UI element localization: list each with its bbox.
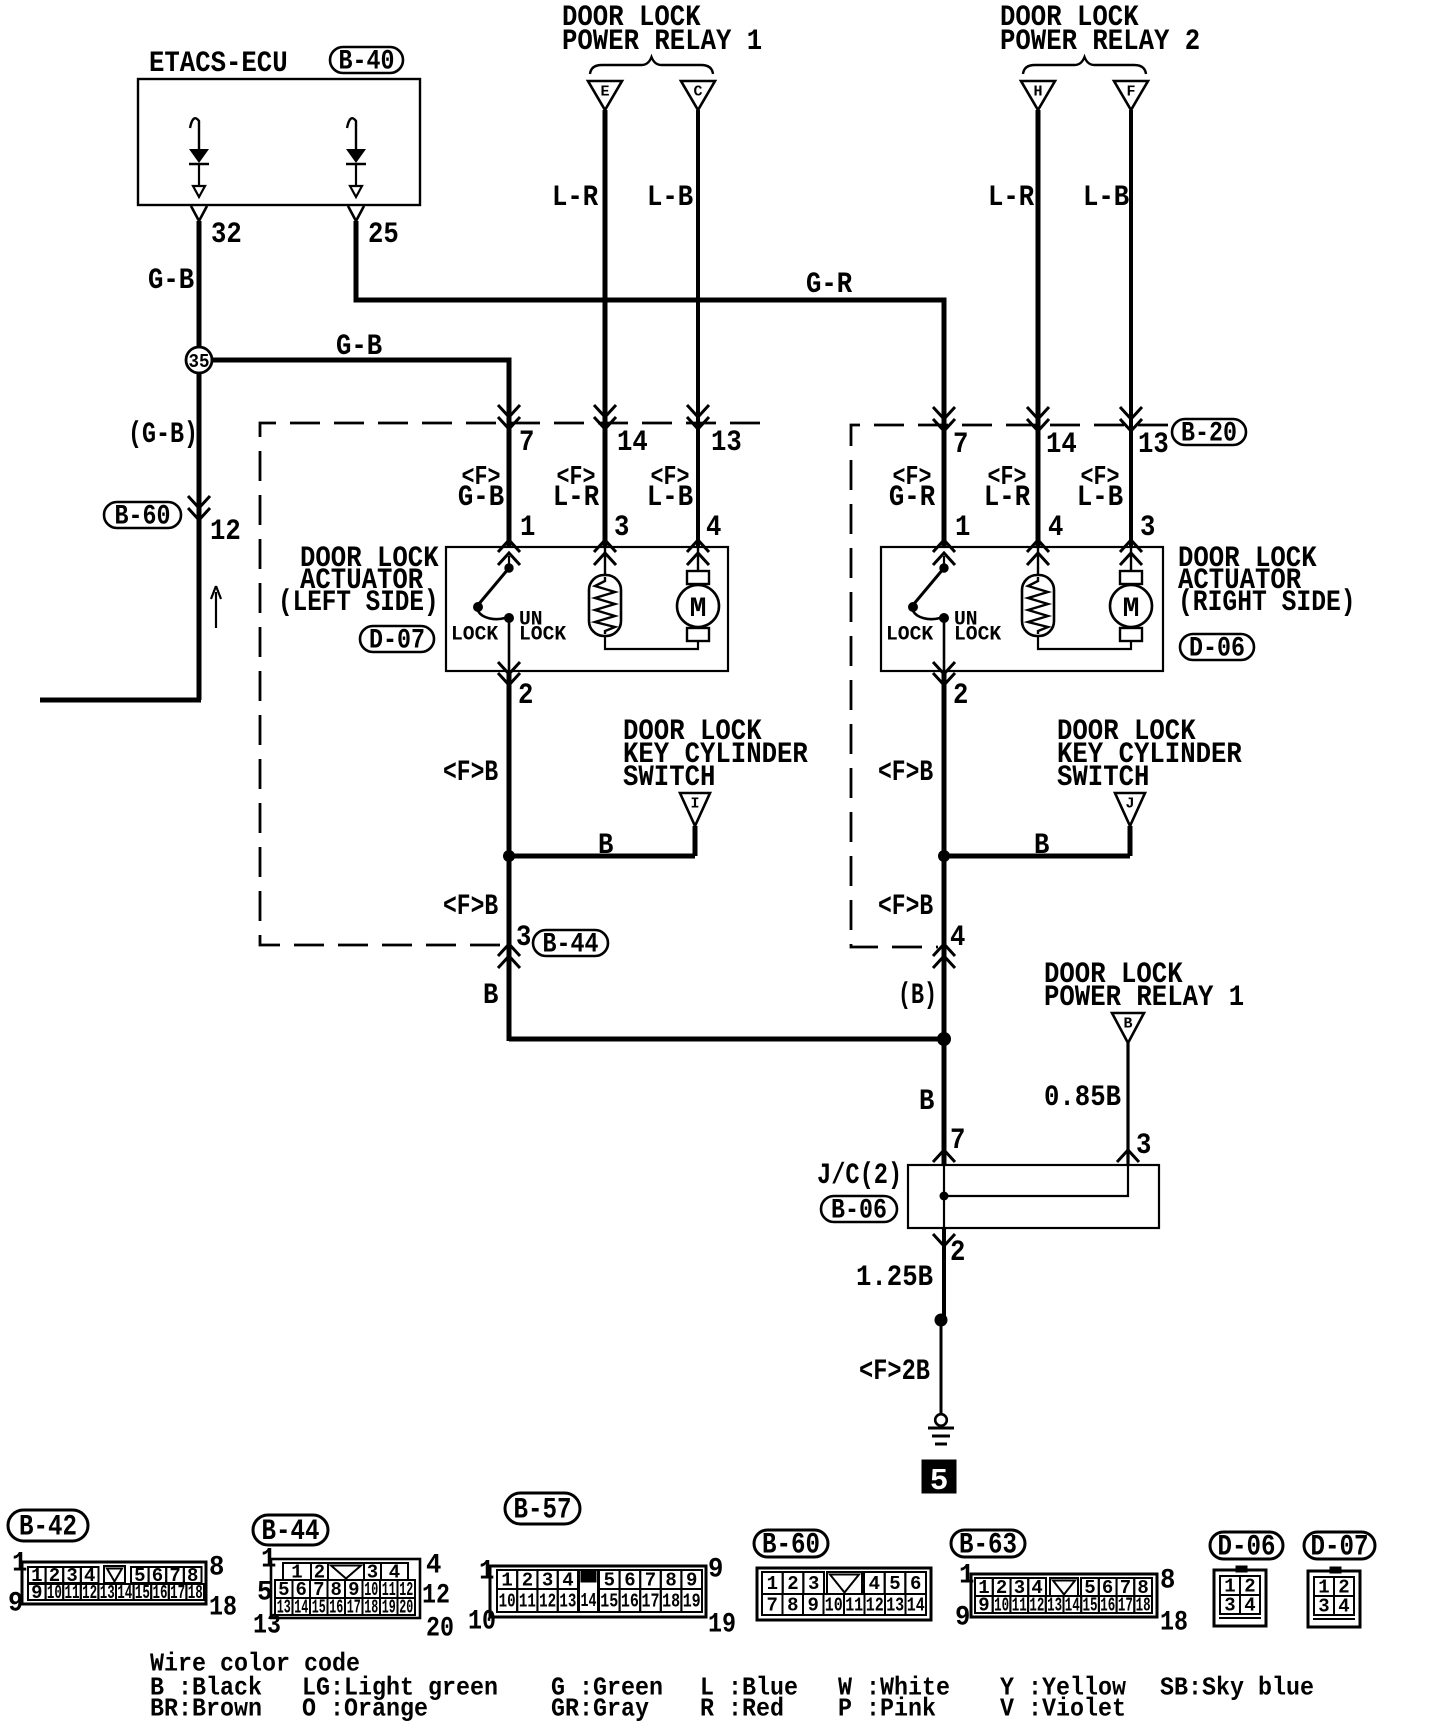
- connector B-60 grid label: [754, 1530, 828, 1557]
- svg-text:12: 12: [1029, 1595, 1044, 1617]
- junction node 35: [186, 347, 212, 373]
- svg-text:4: 4: [869, 1573, 880, 1595]
- svg-text:SWITCH: SWITCH: [1057, 761, 1149, 795]
- svg-text:LOCK: LOCK: [954, 623, 1001, 646]
- svg-text:15: 15: [135, 1582, 150, 1604]
- wire <F>B right: [942, 671, 947, 856]
- B-60 inline connector chevrons: [188, 496, 210, 520]
- svg-text:14: 14: [581, 1590, 597, 1612]
- svg-text:3: 3: [1318, 1596, 1329, 1618]
- svg-text:9: 9: [708, 1555, 723, 1586]
- chevron into actuator: [1120, 540, 1142, 565]
- svg-text:B-57: B-57: [514, 1494, 572, 1528]
- chevron crossing B-20 left pin 14: [594, 405, 616, 429]
- svg-text:M: M: [1123, 594, 1140, 625]
- connector B-57: [505, 1493, 580, 1524]
- wire G-R from pin 25 to right door: [356, 221, 944, 547]
- svg-text:7: 7: [519, 426, 534, 460]
- svg-text:17: 17: [347, 1597, 361, 1619]
- svg-text:1: 1: [261, 1545, 276, 1576]
- svg-text:1: 1: [767, 1573, 778, 1595]
- svg-text:3: 3: [614, 511, 629, 545]
- connector B-44 pin grid: [271, 1559, 420, 1618]
- svg-text:5: 5: [889, 1573, 900, 1595]
- svg-text:G-R: G-R: [889, 481, 935, 515]
- junction B wires: [937, 1032, 951, 1046]
- svg-text:SWITCH: SWITCH: [623, 761, 715, 795]
- connector ref B-06: [821, 1196, 897, 1222]
- svg-text:M: M: [690, 594, 707, 625]
- wire B joining right side: [509, 1037, 944, 1042]
- svg-text:P :Pink: P :Pink: [838, 1693, 936, 1723]
- svg-text:35: 35: [189, 351, 210, 373]
- svg-text:8: 8: [787, 1595, 798, 1617]
- svg-text:3: 3: [1224, 1595, 1235, 1617]
- motor M left actuator: [687, 571, 709, 584]
- svg-text:9: 9: [31, 1582, 42, 1604]
- svg-text:15: 15: [1083, 1595, 1098, 1617]
- svg-text:L-R: L-R: [553, 481, 599, 515]
- chevron into actuator: [687, 540, 709, 565]
- svg-text:GR:Gray: GR:Gray: [551, 1693, 649, 1723]
- ECU pin 25 connector: [348, 206, 364, 221]
- svg-text:0.85B: 0.85B: [1044, 1081, 1121, 1115]
- svg-text:12: 12: [539, 1591, 556, 1613]
- wire 1.25B: [942, 1228, 946, 1320]
- wire <F>2B to ground: [940, 1320, 943, 1415]
- svg-text:4: 4: [1338, 1596, 1349, 1618]
- svg-text:B: B: [919, 1085, 934, 1119]
- svg-text:10: 10: [47, 1582, 62, 1604]
- J/C(2) B-06 box: [908, 1165, 1159, 1228]
- wire to left edge: [40, 698, 201, 703]
- svg-text:16: 16: [153, 1582, 168, 1604]
- svg-text:F: F: [1126, 84, 1135, 101]
- ground ref 5: [922, 1460, 956, 1493]
- wire G-B from pin 32: [197, 221, 202, 347]
- svg-text:LOCK: LOCK: [886, 623, 933, 646]
- svg-text:<F>B: <F>B: [443, 756, 498, 790]
- svg-text:11: 11: [65, 1582, 80, 1604]
- lock/unlock switch right: [943, 556, 945, 566]
- svg-text:13: 13: [559, 1591, 576, 1613]
- connector ref B-40: [330, 47, 403, 73]
- svg-text:2: 2: [953, 679, 968, 713]
- wire from terminal I: [693, 826, 698, 856]
- svg-text:(G-B): (G-B): [128, 418, 198, 452]
- connector ref B-44: [533, 930, 608, 956]
- svg-text:C: C: [693, 84, 702, 101]
- svg-text:25: 25: [368, 218, 399, 252]
- svg-text:B-06: B-06: [831, 1195, 887, 1226]
- svg-text:2: 2: [787, 1573, 798, 1595]
- svg-text:19: 19: [708, 1610, 736, 1641]
- svg-text:SB:Sky blue: SB:Sky blue: [1160, 1672, 1314, 1702]
- svg-text:18: 18: [1136, 1595, 1151, 1617]
- wire pin3 to junction in J/C: [948, 1165, 1128, 1196]
- brace relay 2: [1023, 57, 1146, 74]
- svg-text:(B): (B): [898, 979, 937, 1013]
- connector ref B-60: [104, 502, 181, 528]
- wire to coil left: [604, 547, 606, 575]
- svg-text:POWER RELAY 1: POWER RELAY 1: [1044, 981, 1244, 1015]
- svg-text:I: I: [690, 796, 699, 813]
- chevron right pin 4: [933, 944, 955, 968]
- connector B-57 pin grid: [490, 1566, 706, 1617]
- svg-text:B: B: [483, 979, 498, 1013]
- svg-text:<F>2B: <F>2B: [859, 1355, 930, 1389]
- chevron out of left actuator pin 2: [498, 662, 520, 685]
- connector terminal J: [1115, 793, 1145, 826]
- coil (resistor) left actuator: [589, 575, 621, 636]
- svg-text:3: 3: [516, 921, 531, 955]
- svg-text:13: 13: [886, 1595, 904, 1617]
- svg-text:3: 3: [1136, 1129, 1151, 1163]
- chevron B-44 pin 3: [498, 944, 520, 968]
- svg-text:BR:Brown: BR:Brown: [150, 1693, 262, 1723]
- svg-text:B-60: B-60: [762, 1529, 820, 1563]
- svg-text:13: 13: [100, 1582, 115, 1604]
- chevron into actuator: [498, 540, 520, 565]
- svg-text:LOCK: LOCK: [451, 623, 498, 646]
- svg-text:ETACS-ECU: ETACS-ECU: [149, 47, 288, 81]
- ETACS-ECU box: [138, 79, 420, 205]
- connector ref D-07: [360, 626, 434, 652]
- wire (G-B) down from node 35: [197, 373, 202, 700]
- svg-text:14: 14: [617, 426, 648, 460]
- svg-text:POWER RELAY 1: POWER RELAY 1: [562, 25, 762, 59]
- chevron crossing B-20 left pin 13: [687, 405, 709, 429]
- svg-text:B-63: B-63: [959, 1529, 1017, 1563]
- svg-text:3: 3: [808, 1573, 819, 1595]
- motor M right actuator: [1120, 571, 1142, 584]
- lock/unlock switch left: [508, 556, 510, 566]
- chevron J/C pin 2: [933, 1234, 955, 1246]
- junction left B: [503, 850, 515, 862]
- svg-text:17: 17: [642, 1591, 660, 1613]
- wire B horizontal right: [944, 854, 1130, 859]
- direction arrow up: [211, 586, 221, 628]
- svg-text:<F>B: <F>B: [878, 756, 933, 790]
- diode D2 in ECU (pin 25): [347, 118, 356, 150]
- svg-text:4: 4: [1244, 1595, 1255, 1617]
- svg-text:4: 4: [1048, 511, 1063, 545]
- svg-text:1: 1: [955, 511, 970, 545]
- svg-text:4: 4: [426, 1551, 441, 1582]
- wire to coil right: [1037, 547, 1039, 575]
- ground symbol: [935, 1414, 947, 1426]
- svg-text:3: 3: [1140, 511, 1155, 545]
- wire L-B from terminal F: [1129, 110, 1133, 547]
- svg-text:L-B: L-B: [1077, 481, 1123, 515]
- svg-text:2: 2: [518, 679, 533, 713]
- svg-text:14: 14: [907, 1595, 925, 1617]
- svg-text:4: 4: [950, 921, 965, 955]
- svg-text:11: 11: [845, 1595, 863, 1617]
- svg-text:13: 13: [1047, 1595, 1062, 1617]
- connector B-42 pin grid: [22, 1562, 206, 1604]
- svg-text:19: 19: [382, 1597, 396, 1619]
- chevron J/C pin 7: [933, 1150, 955, 1162]
- svg-text:9: 9: [8, 1589, 23, 1620]
- svg-text:H: H: [1033, 84, 1042, 101]
- chevron crossing B-20 left pin 7: [498, 405, 520, 429]
- connector ref D-06: [1180, 634, 1254, 660]
- svg-text:1: 1: [520, 511, 535, 545]
- svg-text:E: E: [600, 84, 609, 101]
- svg-text:D-06: D-06: [1218, 1531, 1276, 1565]
- svg-text:12: 12: [210, 515, 241, 549]
- svg-text:G-B: G-B: [458, 481, 504, 515]
- svg-text:(LEFT SIDE): (LEFT SIDE): [278, 586, 439, 620]
- wire coil to motor right: [1038, 636, 1131, 649]
- svg-text:B-40: B-40: [339, 46, 395, 77]
- svg-text:14: 14: [117, 1582, 132, 1604]
- connector B-60 pin grid: [757, 1568, 931, 1620]
- junction inside J/C: [940, 1192, 949, 1201]
- svg-text:20: 20: [399, 1597, 413, 1619]
- connector terminal F: [1114, 81, 1148, 110]
- connector D-07: [1304, 1532, 1375, 1559]
- chevron out of right actuator pin 2: [933, 662, 955, 685]
- connector D-06: [1210, 1532, 1283, 1559]
- wire coil to motor left: [605, 636, 698, 649]
- svg-text:18: 18: [209, 1593, 237, 1624]
- svg-text:D-07: D-07: [369, 625, 425, 656]
- svg-text:(RIGHT SIDE): (RIGHT SIDE): [1178, 586, 1356, 620]
- wire 0.85B from terminal B: [1126, 1043, 1129, 1165]
- svg-text:10: 10: [825, 1595, 843, 1617]
- chevron into actuator: [594, 540, 616, 565]
- svg-text:J/C(2): J/C(2): [817, 1159, 902, 1193]
- wire L-R from terminal H: [1036, 110, 1041, 547]
- svg-text:B-42: B-42: [19, 1511, 77, 1545]
- svg-text:9: 9: [807, 1595, 818, 1617]
- svg-text:1: 1: [479, 1557, 494, 1588]
- wire <F>B left: [507, 671, 512, 856]
- svg-text:9: 9: [978, 1595, 989, 1617]
- svg-text:2: 2: [950, 1236, 965, 1270]
- svg-text:5: 5: [257, 1578, 272, 1609]
- svg-text:L-B: L-B: [647, 481, 693, 515]
- wire B horizontal left: [509, 854, 695, 859]
- svg-text:32: 32: [211, 218, 242, 252]
- svg-text:G-R: G-R: [806, 268, 852, 302]
- svg-text:17: 17: [170, 1582, 185, 1604]
- brace relay 1: [590, 57, 713, 74]
- connector terminal E: [588, 81, 622, 110]
- svg-text:<F>B: <F>B: [443, 890, 498, 924]
- svg-text:1.25B: 1.25B: [856, 1261, 933, 1295]
- coil (resistor) right actuator: [1022, 575, 1054, 636]
- connector B-63 pin grid: [971, 1574, 1157, 1617]
- svg-text:18: 18: [1160, 1608, 1188, 1639]
- DOOR LOCK ACTUATOR (RIGHT SIDE) box D-06: [881, 547, 1163, 671]
- svg-text:7: 7: [953, 428, 968, 462]
- svg-text:16: 16: [1100, 1595, 1115, 1617]
- wire L-B from terminal C: [696, 110, 700, 547]
- svg-text:8: 8: [209, 1553, 224, 1584]
- connector B-44: [253, 1515, 328, 1545]
- dashed harness boundary (right door): [851, 425, 1168, 947]
- svg-text:10: 10: [994, 1595, 1009, 1617]
- svg-text:20: 20: [426, 1614, 454, 1645]
- connector terminal B: [1112, 1013, 1144, 1043]
- wire through J/C: [943, 1165, 945, 1228]
- svg-text:11: 11: [519, 1591, 536, 1613]
- svg-text:B-44: B-44: [543, 929, 599, 960]
- wire to motor right: [1130, 547, 1132, 571]
- svg-text:L-R: L-R: [984, 481, 1030, 515]
- svg-text:18: 18: [364, 1597, 378, 1619]
- svg-text:1: 1: [959, 1561, 974, 1592]
- svg-text:11: 11: [1012, 1595, 1027, 1617]
- svg-text:J: J: [1125, 796, 1134, 813]
- wire (B)/B down right: [942, 856, 947, 1165]
- svg-text:13: 13: [711, 426, 742, 460]
- chevron into actuator: [1027, 540, 1049, 565]
- svg-text:L-R: L-R: [988, 181, 1034, 215]
- DOOR LOCK ACTUATOR (LEFT SIDE) box D-07: [446, 547, 728, 671]
- svg-text:13: 13: [253, 1611, 281, 1642]
- wire <F>B to B-44: [507, 856, 512, 1041]
- connector B-63: [951, 1530, 1025, 1557]
- svg-text:19: 19: [683, 1591, 701, 1613]
- chevron J/C pin 3: [1117, 1150, 1139, 1162]
- junction right B: [938, 850, 950, 862]
- svg-text:<F>B: <F>B: [878, 890, 933, 924]
- svg-text:B: B: [1123, 1016, 1132, 1033]
- svg-text:4: 4: [706, 511, 721, 545]
- svg-text:18: 18: [188, 1582, 203, 1604]
- svg-text:D-07: D-07: [1311, 1531, 1369, 1565]
- connector B-42: [8, 1510, 88, 1541]
- svg-text:15: 15: [600, 1591, 618, 1613]
- svg-text:R :Red: R :Red: [700, 1693, 784, 1723]
- junction splice: [935, 1314, 948, 1327]
- svg-text:16: 16: [329, 1597, 343, 1619]
- svg-text:14: 14: [1065, 1595, 1080, 1617]
- svg-text:6: 6: [910, 1573, 921, 1595]
- svg-text:O :Orange: O :Orange: [302, 1693, 428, 1723]
- svg-text:G-B: G-B: [336, 330, 382, 364]
- svg-text:7: 7: [950, 1124, 965, 1158]
- svg-text:14: 14: [1046, 428, 1077, 462]
- connector D-07 pin grid: [1330, 1567, 1341, 1573]
- wire to motor left: [697, 547, 699, 571]
- dashed harness boundary (left door): [260, 423, 760, 945]
- svg-text:L-R: L-R: [552, 181, 598, 215]
- svg-text:17: 17: [1118, 1595, 1133, 1617]
- chevron crossing right pin 13: [1120, 407, 1142, 431]
- wire G-B branch from node 35 to left door: [212, 360, 509, 547]
- svg-text:G-B: G-B: [148, 264, 194, 298]
- chevron crossing right pin 7: [933, 407, 955, 431]
- svg-text:L-B: L-B: [647, 181, 693, 215]
- svg-text:V :Violet: V :Violet: [1000, 1693, 1126, 1723]
- svg-text:10: 10: [468, 1607, 496, 1638]
- svg-text:12: 12: [866, 1595, 884, 1617]
- svg-text:B-60: B-60: [115, 501, 171, 532]
- chevron into actuator: [933, 540, 955, 565]
- svg-text:16: 16: [621, 1591, 639, 1613]
- svg-text:B-20: B-20: [1181, 418, 1237, 449]
- connector terminal I: [680, 793, 710, 826]
- svg-text:18: 18: [662, 1591, 680, 1613]
- svg-text:5: 5: [930, 1464, 949, 1499]
- connector terminal C: [681, 81, 715, 110]
- svg-text:14: 14: [294, 1597, 308, 1619]
- connector D-06 pin grid: [1236, 1566, 1247, 1572]
- svg-text:12: 12: [82, 1582, 97, 1604]
- wire L-R from terminal E: [603, 110, 608, 547]
- wire from terminal J: [1128, 826, 1133, 856]
- svg-text:LOCK: LOCK: [519, 623, 566, 646]
- svg-text:D-06: D-06: [1189, 633, 1245, 664]
- svg-text:8: 8: [1160, 1566, 1175, 1597]
- svg-text:1: 1: [12, 1549, 27, 1580]
- svg-text:15: 15: [312, 1597, 326, 1619]
- svg-text:9: 9: [955, 1603, 970, 1634]
- connector ref B-20: [1172, 419, 1246, 445]
- svg-text:13: 13: [1138, 428, 1169, 462]
- svg-text:7: 7: [766, 1595, 777, 1617]
- chevron crossing right pin 14: [1027, 407, 1049, 431]
- svg-text:POWER RELAY 2: POWER RELAY 2: [1000, 25, 1200, 59]
- connector terminal H: [1021, 81, 1055, 110]
- svg-text:10: 10: [499, 1591, 516, 1613]
- ECU pin 32 connector: [191, 206, 207, 221]
- diode D1 in ECU (pin 32): [190, 118, 199, 150]
- svg-text:12: 12: [422, 1581, 450, 1612]
- svg-text:L-B: L-B: [1083, 181, 1129, 215]
